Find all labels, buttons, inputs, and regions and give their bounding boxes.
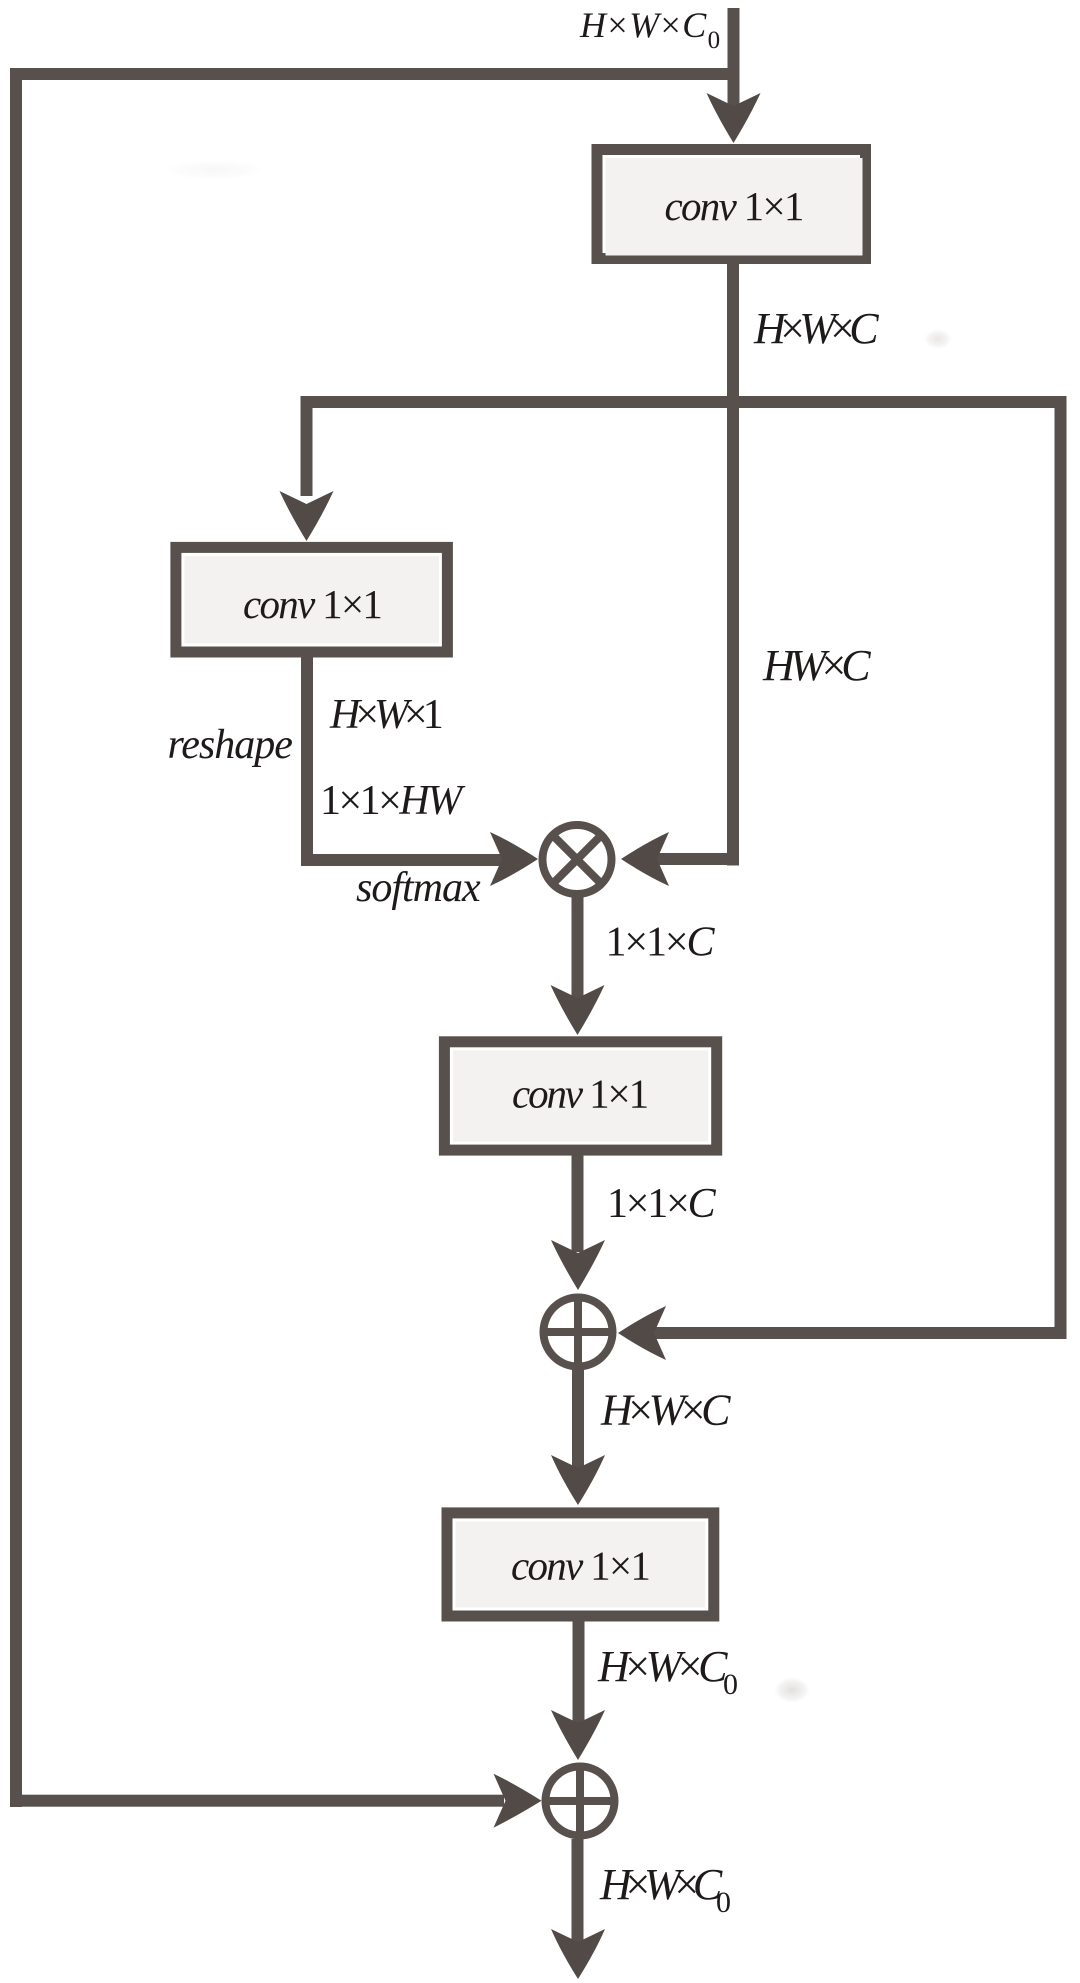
block conv1x1 U4 [447,1513,714,1616]
label H×W×C below add1 [600,1386,731,1435]
wire bottom horizontal of skip loop [10,1795,504,1807]
svg-text:reshape: reshape [168,722,293,768]
wire left branch vertical [301,396,313,496]
wire right horizontal into add1 [654,1327,1067,1339]
wire add2 down to output [572,1839,584,1943]
label H×W×C0 below conv4 [597,1642,738,1701]
wire junction horizontal [301,396,1067,408]
wire top horizontal of left skip loop [10,68,734,80]
label top H×W×C0 [579,5,720,54]
multiply node (circled times) [543,825,612,894]
arrowhead into conv box 3 [551,985,605,1035]
wire left vertical of skip loop [10,68,22,1807]
arrowhead right into multiply node [621,832,669,886]
svg-text:HW×C: HW×C [762,641,871,690]
arrowhead output [551,1929,605,1979]
svg-text:H×W×C: H×W×C [753,304,879,353]
arrowhead into conv box 4 [551,1455,605,1505]
wire multiply down to conv3 [572,897,584,999]
svg-text:H×W×C: H×W×C [600,1386,731,1435]
block conv1x1 U1 [597,150,866,259]
svg-text:1×1×C: 1×1×C [607,1181,717,1227]
arrowhead into add node 2 from top [551,1710,605,1760]
wire right vertical from junction down to add1 [1055,396,1067,1339]
wire right horizontal into multiply [656,853,739,865]
arrowhead softmax into multiply node [490,832,538,886]
label reshape [168,722,293,768]
svg-text:1×1×C: 1×1×C [606,920,716,966]
label 1×1×HW [320,778,466,824]
wire conv3 down to add1 [572,1155,584,1252]
label HW×C [762,641,871,690]
label softmax [356,865,481,911]
svg-text:H×W×C0: H×W×C0 [599,1860,731,1919]
svg-text:1×1×HW: 1×1×HW [320,778,466,824]
svg-text:H×W×C0: H×W×C0 [579,5,720,54]
svg-text:conv 1×1: conv 1×1 [243,581,381,627]
add node 2 (circled plus) [546,1767,615,1836]
label H×W×1 [329,692,442,738]
arrowhead into add node 1 [551,1240,605,1290]
arrowhead into conv box 1 [707,93,761,143]
label H×W×C0 output [599,1860,731,1919]
svg-text:softmax: softmax [356,865,481,911]
svg-text:H×W×1: H×W×1 [329,692,442,738]
wire conv4 down to add2 [573,1616,585,1725]
block conv1x1 U2 [176,547,448,652]
label 1×1×C below conv3 [607,1181,717,1227]
wire reshape vertical below conv2 [301,657,313,866]
arrowhead into conv box 2 [280,491,334,541]
wire reshape horizontal into multiply [301,854,502,866]
svg-text:conv 1×1: conv 1×1 [511,1543,649,1589]
wire top vertical input [728,8,740,108]
svg-text:H×W×C0: H×W×C0 [597,1642,738,1701]
add node 1 (circled plus) [544,1298,613,1367]
svg-text:conv 1×1: conv 1×1 [512,1071,648,1117]
wire from conv1 down to multiply corner [727,264,739,866]
label H×W×C below conv1 [753,304,879,353]
arrowhead right into add node 1 [618,1306,666,1360]
svg-text:conv 1×1: conv 1×1 [665,183,803,229]
label 1×1×C above conv3 [606,920,716,966]
block conv1x1 U3 [444,1042,716,1150]
wire add1 down to conv4 [572,1370,584,1470]
arrowhead into add node 2 [494,1774,542,1828]
